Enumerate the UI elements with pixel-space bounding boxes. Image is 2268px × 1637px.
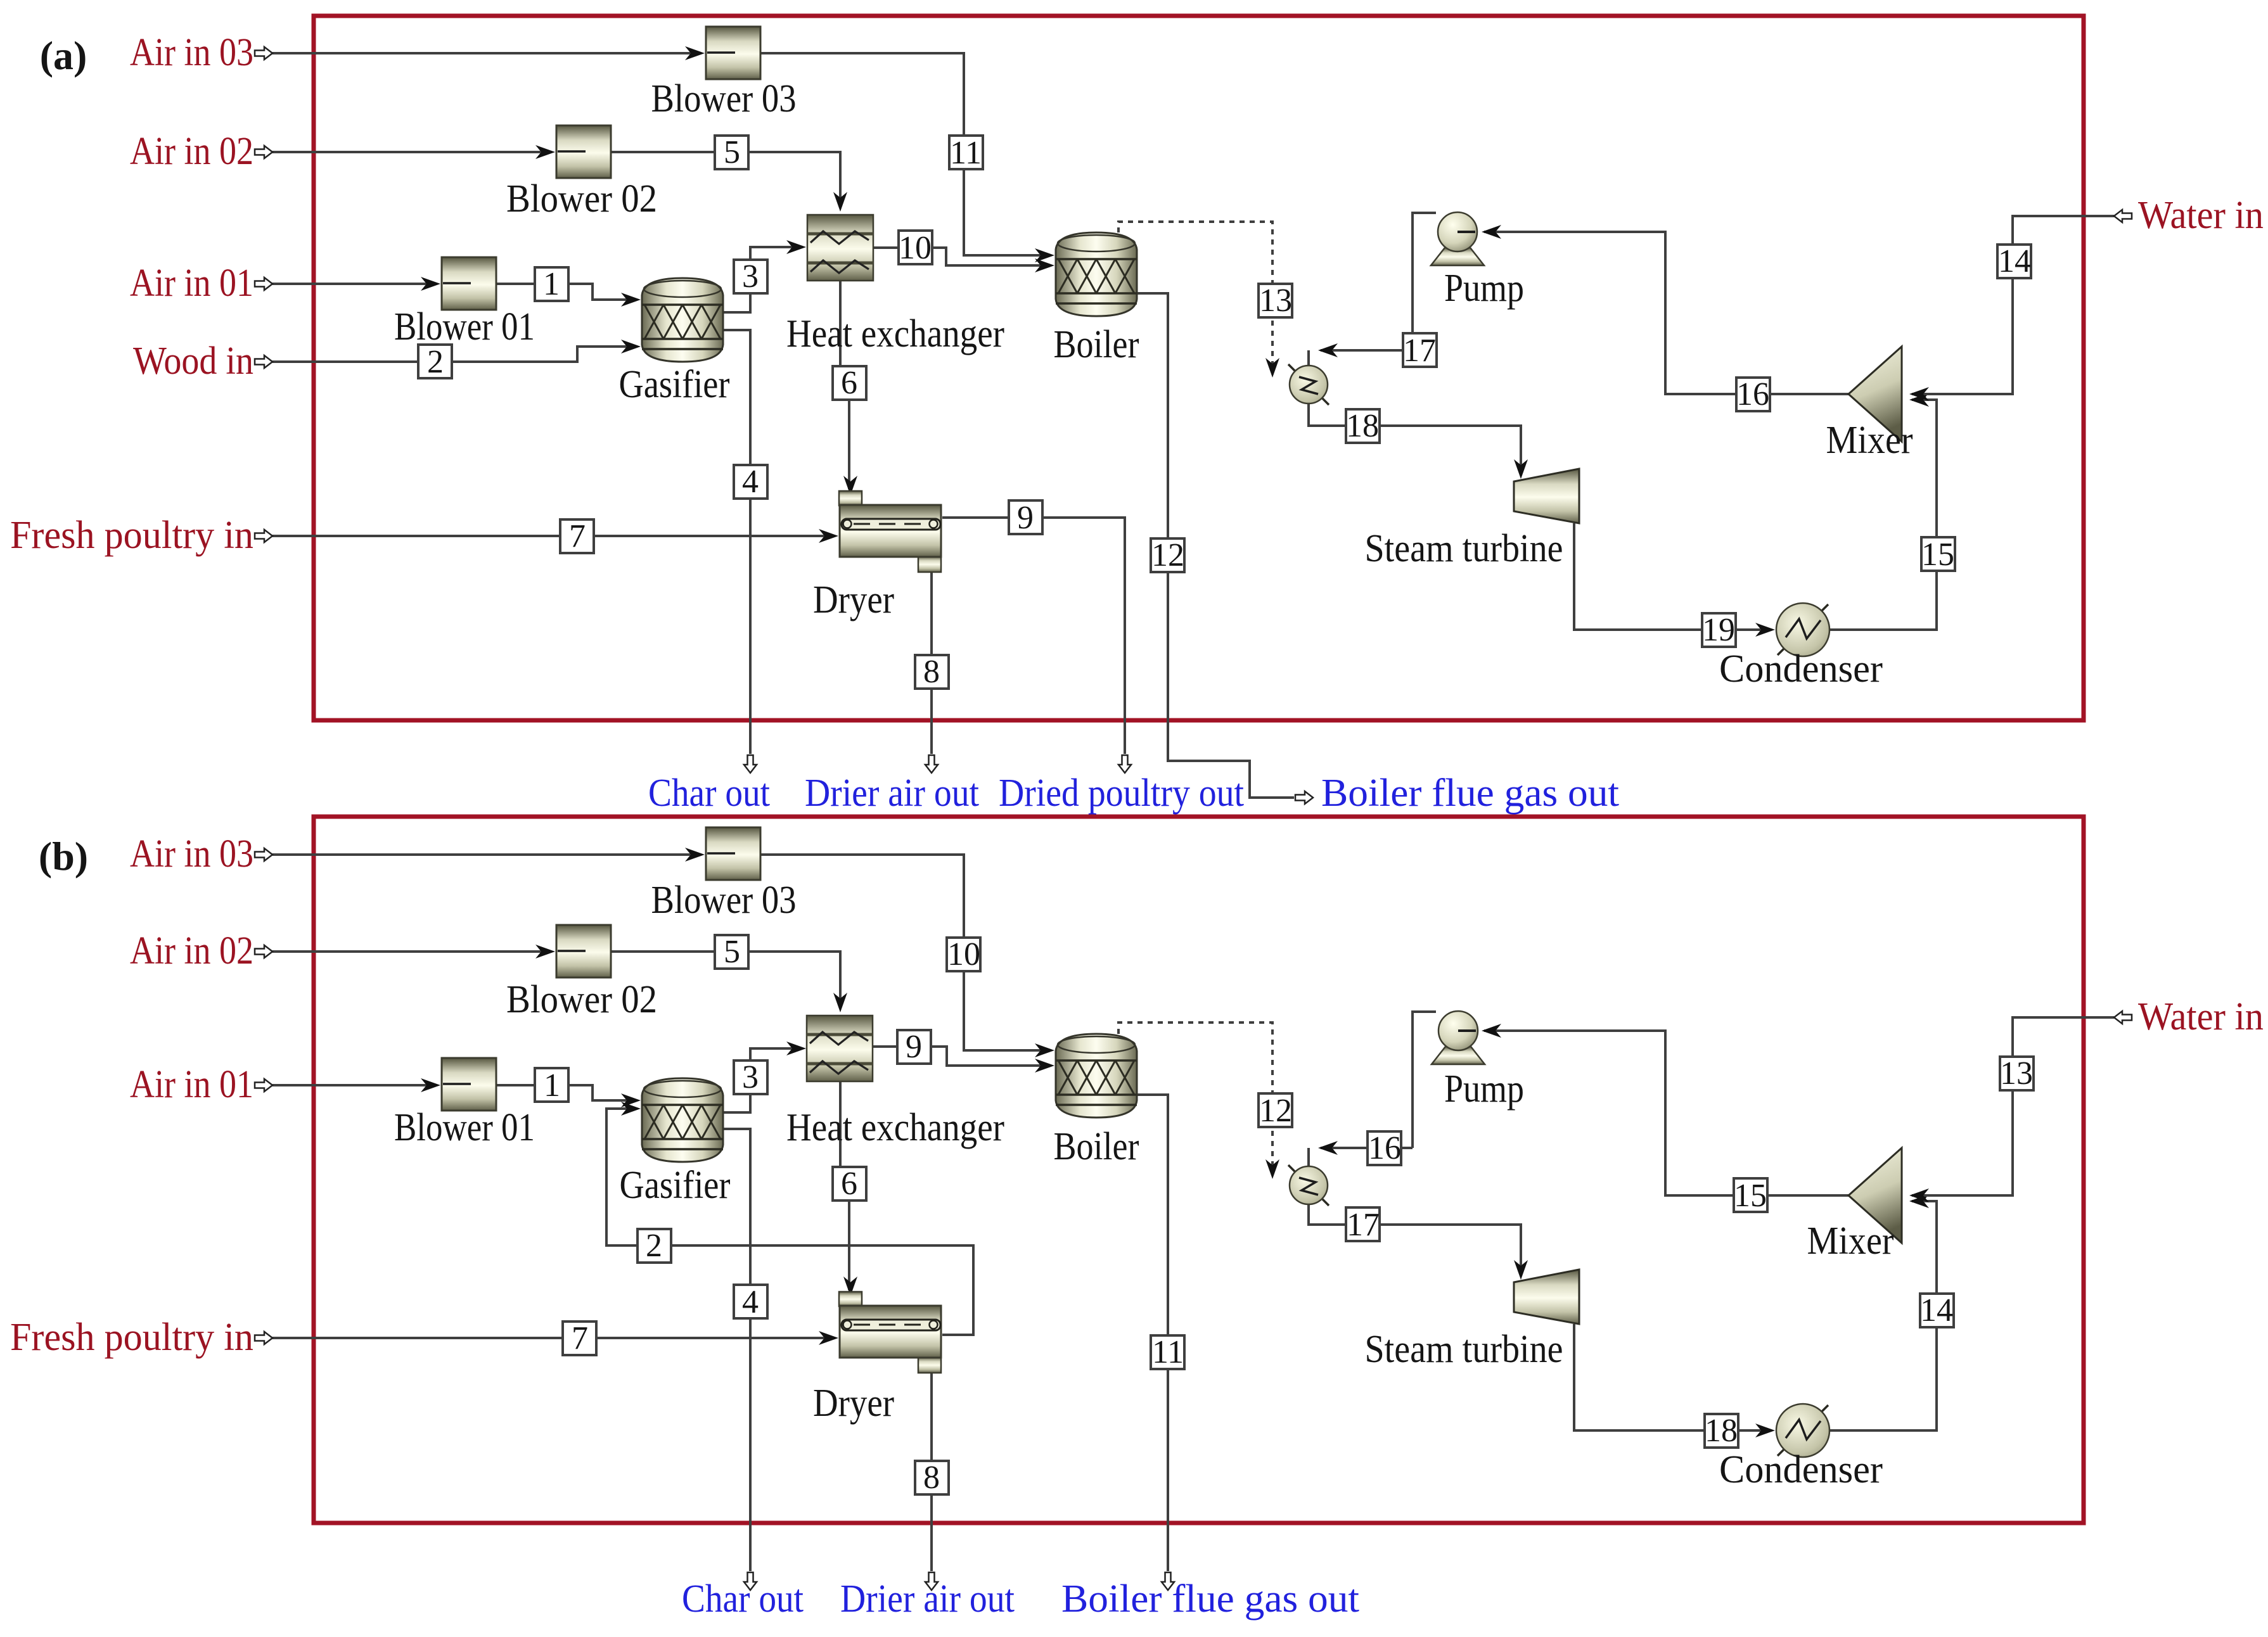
text label Boiler label (a) — [1054, 323, 1139, 366]
text label Mixer label (a) — [1826, 419, 1913, 462]
text label Air in 02 (a) — [130, 130, 253, 173]
blower Blower 01 (b) — [442, 1058, 496, 1111]
wire stream 9 HX to boiler (b) — [873, 1047, 1051, 1066]
arrowhead into pump (b) — [1482, 1024, 1501, 1038]
wire stream 18 turbine to condenser (b) — [1574, 1324, 1771, 1430]
panel (b) boundary box — [314, 817, 2084, 1523]
svg-text:12: 12 — [1151, 537, 1184, 573]
text label Gasifier label (a) — [619, 363, 730, 406]
wire stream 10 blower03 to boiler (b) — [760, 855, 1051, 1050]
arrowhead into boiler lower (b) — [1035, 1059, 1054, 1073]
stream label box 13 (a) — [1259, 283, 1292, 319]
arrowhead into turbine (a) — [1514, 459, 1528, 479]
dryer Dryer (a) — [839, 491, 941, 572]
arrowhead into blower02 (a) — [535, 145, 555, 159]
arrowhead into blower01 (b) — [421, 1078, 440, 1092]
wire stream 8 drier air out (a) — [930, 573, 933, 754]
arrowhead into blower01 (a) — [421, 277, 440, 291]
arrowhead into heater top (a) — [1318, 343, 1338, 357]
arrowhead into HX left (b) — [786, 1041, 806, 1055]
dryer Dryer (b) — [839, 1292, 941, 1373]
vessel Gasifier (b) — [642, 1078, 723, 1162]
svg-text:4: 4 — [742, 1284, 759, 1320]
stream label box 11 (a) — [949, 135, 983, 171]
stream label box 17 (a) — [1403, 333, 1437, 369]
svg-text:Dried poultry out: Dried poultry out — [999, 772, 1244, 815]
svg-text:Pump: Pump — [1444, 267, 1524, 310]
wire air in 02 feed (a) — [272, 151, 551, 153]
wire stream 12 heat dashed (b) — [1118, 1022, 1272, 1169]
blower Blower 02 (a) — [556, 125, 611, 178]
wire stream 14 condenser to mixer (b) — [1829, 1201, 1937, 1430]
arrowhead into heater top (b) — [1318, 1141, 1338, 1155]
text label Gasifier label (b) — [620, 1164, 731, 1207]
wire stream 1 blower01 to gasifier (a) — [496, 284, 637, 300]
text label Fresh poultry in (a) — [10, 514, 253, 557]
text label Water in (a) — [2138, 194, 2264, 237]
open stream arrow boiler flue gas out arrow (b) — [1162, 1572, 1174, 1590]
svg-text:13: 13 — [1259, 283, 1292, 319]
steam turbine Steam turbine (b) — [1514, 1270, 1579, 1324]
text label Drier air out (a) — [805, 772, 979, 815]
arrowhead dashed into heater (a) — [1265, 358, 1279, 378]
mixer Mixer (a) — [1848, 347, 1902, 442]
svg-text:Air in 01: Air in 01 — [130, 262, 253, 305]
wire stream 3 gasifier to HX (a) — [721, 247, 802, 312]
wire stream 7 fresh poultry to dryer (a) — [272, 535, 835, 537]
text label Dryer label (b) — [813, 1382, 894, 1425]
stream label box 7 (a) — [560, 518, 594, 554]
svg-text:Water in: Water in — [2138, 995, 2264, 1038]
wire heater top stub (b) — [1307, 1148, 1310, 1166]
text label Air in 03 (b) — [130, 832, 253, 876]
svg-text:Condenser: Condenser — [1719, 1448, 1883, 1491]
svg-text:5: 5 — [724, 134, 740, 170]
text label Condenser label (a) — [1719, 647, 1883, 691]
arrowhead into dryer (b) — [819, 1331, 838, 1345]
svg-text:(b): (b) — [39, 834, 88, 879]
stream label box 15 (a) — [1921, 537, 1955, 573]
text label Char out (b) — [682, 1577, 804, 1621]
text label Water in (b) — [2138, 995, 2264, 1038]
open stream arrow drier air out (a) — [925, 755, 938, 773]
open stream arrow air in 02 (b) — [255, 945, 272, 958]
text label Mixer label (b) — [1807, 1220, 1894, 1263]
wire stream 3 gasifier to HX (b) — [721, 1048, 802, 1112]
stream label box 3 (a) — [734, 258, 767, 295]
arrowhead into mixer upper (a) — [1909, 387, 1929, 401]
arrowhead into boiler upper (b) — [1035, 1043, 1054, 1057]
svg-text:14: 14 — [1920, 1292, 1953, 1328]
text label Boiler flue gas out (a) — [1321, 772, 1619, 815]
open stream arrow char out (a) — [744, 755, 757, 773]
stream label box 18 (b) — [1705, 1413, 1738, 1449]
text label Drier air out (b) — [840, 1577, 1015, 1621]
svg-text:18: 18 — [1346, 408, 1379, 444]
svg-text:3: 3 — [742, 1059, 759, 1095]
svg-text:Boiler flue gas out: Boiler flue gas out — [1061, 1577, 1359, 1621]
arrowhead into dryer (a) — [819, 529, 838, 543]
wire stream 4 char out line (a) — [721, 330, 750, 754]
svg-text:Steam turbine: Steam turbine — [1365, 1328, 1563, 1371]
svg-text:1: 1 — [544, 1067, 560, 1104]
svg-text:Boiler: Boiler — [1054, 1125, 1139, 1168]
wire stream 7 fresh poultry to dryer (b) — [272, 1337, 835, 1339]
wire stream 2 dryer solids to gasifier (b) — [606, 1109, 973, 1335]
arrowhead into dryer top (a) — [843, 476, 857, 495]
svg-text:Blower 01: Blower 01 — [394, 1106, 535, 1149]
stream label box 1 (a) — [535, 266, 568, 302]
arrowhead dashed into heater (b) — [1265, 1159, 1279, 1179]
svg-text:17: 17 — [1403, 333, 1436, 369]
text label Blower 02 label (b) — [506, 978, 657, 1021]
stream label box 5 (b) — [715, 934, 748, 970]
vessel Gasifier (a) — [642, 278, 723, 362]
svg-text:Air in 03: Air in 03 — [130, 832, 253, 876]
arrowhead into gasifier wood (a) — [621, 340, 641, 354]
steam turbine Steam turbine (a) — [1514, 469, 1579, 523]
wire air in 03 feed (a) — [272, 52, 701, 54]
arrowhead into pump (a) — [1482, 225, 1501, 239]
wire stream 13 water to mixer (b) — [1912, 1017, 2114, 1195]
svg-text:Char out: Char out — [648, 772, 770, 815]
stream label box 12 (a) — [1151, 537, 1184, 573]
open stream arrow fresh poultry in (a) — [255, 530, 272, 542]
text label Steam turbine label (a) — [1365, 527, 1563, 570]
stream label box 10 (b) — [947, 936, 980, 972]
open stream arrow air in 02 (a) — [255, 146, 272, 158]
svg-text:Fresh poultry in: Fresh poultry in — [10, 1316, 253, 1359]
mixer Mixer (b) — [1848, 1148, 1902, 1243]
svg-text:Dryer: Dryer — [813, 1382, 894, 1425]
stream label box 8 (b) — [915, 1460, 949, 1496]
text label Boiler label (b) — [1054, 1125, 1139, 1168]
text label Blower 01 label (b) — [394, 1106, 535, 1149]
text label Fresh poultry in (b) — [10, 1316, 253, 1359]
wire stream 19 turbine to condenser (a) — [1574, 523, 1771, 630]
wire heater top stub (a) — [1307, 350, 1310, 366]
arrowhead into HX top (b) — [833, 993, 847, 1012]
stream label box 14 (a) — [1997, 243, 2031, 279]
open stream arrow air in 03 (a) — [255, 47, 272, 60]
stream label box 9 (a) — [1009, 500, 1042, 536]
open stream arrow water in (a) — [2114, 210, 2132, 222]
arrowhead into boiler upper (a) — [1035, 248, 1054, 262]
arrowhead into HX top (a) — [833, 192, 847, 212]
arrowhead into mixer upper (b) — [1909, 1188, 1929, 1202]
wire stream 12 boiler flue line (a) — [1137, 293, 1294, 798]
heat exchanger Heat exchanger (b) — [807, 1016, 873, 1081]
arrowhead into HX left (a) — [786, 240, 806, 254]
svg-text:Pump: Pump — [1444, 1067, 1524, 1111]
svg-text:Blower 02: Blower 02 — [506, 978, 657, 1021]
arrowhead into dryer top (b) — [843, 1277, 857, 1296]
svg-text:4: 4 — [742, 464, 759, 500]
arrowhead into condenser (a) — [1755, 623, 1775, 637]
wire stream 6 HX to dryer (a) — [840, 281, 849, 489]
open stream arrow wood in (a) — [255, 355, 272, 368]
svg-text:Wood in: Wood in — [133, 340, 253, 383]
arrowhead into blower03 (b) — [685, 848, 705, 862]
stream label box 6 (a) — [833, 365, 866, 401]
svg-text:Mixer: Mixer — [1826, 419, 1913, 462]
svg-text:Char out: Char out — [682, 1577, 804, 1621]
stream label box 9 (b) — [897, 1029, 931, 1065]
condenser Condenser (a) — [1776, 603, 1829, 656]
wire stream 1 blower01 to gasifier (b) — [496, 1085, 637, 1100]
stream label box 12 (b) — [1259, 1093, 1292, 1129]
stream label box 10 (a) — [899, 230, 932, 266]
text label Blower 02 label (a) — [506, 177, 657, 220]
wire stream 11 blower03 to boiler (a) — [760, 53, 1051, 255]
stream label box 5 (a) — [715, 134, 748, 170]
open stream arrow boiler flue gas out (a) — [1295, 791, 1313, 804]
wire stream 5 blower02 to HX (b) — [611, 952, 840, 1005]
svg-text:16: 16 — [1368, 1130, 1401, 1166]
stream label box 18 (a) — [1346, 408, 1380, 444]
stream label box 7 (b) — [563, 1320, 596, 1356]
condenser Condenser (b) — [1776, 1404, 1829, 1457]
text label Wood in (a) — [133, 340, 253, 383]
svg-text:14: 14 — [1998, 243, 2031, 279]
panel (a) boundary box — [314, 16, 2084, 720]
text label Dryer label (a) — [813, 578, 894, 621]
blower Blower 01 (a) — [442, 257, 496, 310]
wire stream 16 pump to heater (b) — [1321, 1012, 1436, 1148]
svg-text:7: 7 — [572, 1320, 588, 1356]
wire stream 4 char out line (b) — [721, 1129, 750, 1571]
svg-text:17: 17 — [1347, 1207, 1380, 1243]
pump Pump (a) — [1431, 212, 1484, 265]
svg-text:8: 8 — [923, 1460, 940, 1496]
svg-text:Air in 01: Air in 01 — [130, 1063, 253, 1106]
open stream arrow air in 01 (b) — [255, 1079, 272, 1092]
wire stream 6 HX to dryer (b) — [840, 1075, 849, 1290]
wire air in 03 feed (b) — [272, 853, 701, 856]
stream label box 16 (b) — [1368, 1130, 1401, 1166]
open stream arrow dried poultry out (a) — [1118, 755, 1131, 773]
stream label box 4 (a) — [734, 464, 767, 500]
text label Blower 03 label (b) — [651, 879, 797, 922]
svg-text:6: 6 — [841, 1166, 857, 1202]
heat exchanger Heat exchanger (a) — [807, 215, 873, 281]
svg-text:19: 19 — [1702, 612, 1735, 648]
arrowhead into blower03 (a) — [685, 46, 705, 60]
stream label box 6 (b) — [833, 1166, 866, 1202]
svg-text:Dryer: Dryer — [813, 578, 894, 621]
wire stream 16 mixer to pump (a) — [1484, 232, 1848, 394]
stream label box 2 (a) — [418, 344, 452, 380]
text label panel label (b) — [39, 834, 88, 879]
wire stream 8 drier air out (b) — [930, 1373, 933, 1571]
blower Blower 02 (b) — [556, 925, 611, 978]
stream label box 13 (b) — [2000, 1055, 2034, 1092]
svg-text:Mixer: Mixer — [1807, 1220, 1894, 1263]
svg-text:Blower 02: Blower 02 — [506, 177, 657, 220]
arrowhead into turbine (b) — [1514, 1260, 1528, 1280]
text label panel label (a) — [40, 33, 87, 78]
text label Blower 03 label (a) — [651, 77, 797, 120]
open stream arrow water in (b) — [2114, 1011, 2132, 1024]
wire stream 15 mixer to pump (b) — [1484, 1031, 1848, 1195]
wire stream 17 heater to turbine (b) — [1309, 1204, 1521, 1273]
heater heater exchanger circle (b) — [1288, 1165, 1329, 1206]
vessel Boiler (a) — [1056, 232, 1137, 316]
arrowhead into condenser (b) — [1755, 1424, 1775, 1437]
wire stream 9 dried poultry out (a) — [942, 518, 1125, 754]
svg-text:Condenser: Condenser — [1719, 647, 1883, 691]
text label Boiler flue gas out (b) — [1061, 1577, 1359, 1621]
wire stream 18 heater to turbine (a) — [1309, 404, 1521, 473]
stream label box 16 (a) — [1736, 376, 1770, 412]
svg-text:Heat exchanger: Heat exchanger — [786, 1106, 1004, 1149]
wire air in 01 feed (a) — [272, 283, 437, 285]
svg-text:18: 18 — [1705, 1413, 1738, 1449]
svg-text:Air in 02: Air in 02 — [130, 130, 253, 173]
svg-text:9: 9 — [1017, 500, 1034, 536]
svg-text:Water in: Water in — [2138, 194, 2264, 237]
stream label box 15 (b) — [1734, 1178, 1767, 1214]
arrowhead into gasifier feed (b) — [621, 1102, 641, 1116]
text label Air in 02 (b) — [130, 929, 253, 972]
svg-text:Air in 02: Air in 02 — [130, 929, 253, 972]
text label Dried poultry out (a) — [999, 772, 1244, 815]
svg-text:7: 7 — [569, 518, 586, 554]
arrowhead into boiler lower (a) — [1035, 258, 1054, 272]
svg-text:Boiler: Boiler — [1054, 323, 1139, 366]
open stream arrow fresh poultry in (b) — [255, 1332, 272, 1344]
svg-text:Gasifier: Gasifier — [619, 363, 730, 406]
text label Steam turbine label (b) — [1365, 1328, 1563, 1371]
text label Air in 01 (b) — [130, 1063, 253, 1106]
open stream arrow char out (b) — [744, 1572, 757, 1590]
text label Heat exchanger label (b) — [786, 1106, 1004, 1149]
svg-text:10: 10 — [899, 230, 932, 266]
text label Air in 01 (a) — [130, 262, 253, 305]
svg-text:3: 3 — [742, 258, 759, 295]
arrowhead into gasifier air (b) — [621, 1093, 641, 1107]
svg-text:Blower 01: Blower 01 — [394, 305, 535, 348]
wire stream 13 heat dashed (a) — [1118, 222, 1272, 367]
wire stream 5 blower02 to HX (a) — [611, 152, 840, 204]
text label Condenser label (b) — [1719, 1448, 1883, 1491]
svg-text:11: 11 — [1152, 1334, 1184, 1370]
svg-text:Drier air out: Drier air out — [840, 1577, 1015, 1621]
wire stream 14 water to mixer (a) — [1912, 216, 2114, 394]
svg-text:10: 10 — [947, 936, 980, 972]
svg-text:Air in 03: Air in 03 — [130, 31, 253, 74]
svg-text:Heat exchanger: Heat exchanger — [786, 312, 1004, 355]
open stream arrow air in 01 (a) — [255, 277, 272, 290]
svg-text:6: 6 — [841, 365, 857, 401]
wire stream 2 wood to gasifier (a) — [272, 347, 637, 362]
svg-text:16: 16 — [1736, 376, 1769, 412]
pump Pump (b) — [1432, 1011, 1485, 1064]
stream label box 4 (b) — [734, 1284, 767, 1320]
stream label box 3 (b) — [734, 1059, 767, 1095]
wire air in 01 feed (b) — [272, 1084, 437, 1086]
text label Blower 01 label (a) — [394, 305, 535, 348]
arrowhead into gasifier air (a) — [621, 293, 641, 307]
wire stream 15 condenser to mixer (a) — [1829, 400, 1937, 630]
svg-text:(a): (a) — [40, 33, 87, 78]
svg-text:11: 11 — [950, 135, 982, 171]
svg-text:5: 5 — [724, 934, 740, 970]
arrowhead into mixer lower (a) — [1909, 393, 1929, 407]
stream label box 14 (b) — [1920, 1292, 1954, 1328]
blower Blower 03 (b) — [706, 827, 760, 880]
svg-text:2: 2 — [427, 344, 444, 380]
svg-text:9: 9 — [906, 1029, 922, 1065]
wire stream 11 boiler flue line (b) — [1137, 1095, 1168, 1571]
text label Pump label (a) — [1444, 267, 1524, 310]
arrowhead into mixer lower (b) — [1909, 1194, 1929, 1208]
svg-text:13: 13 — [2000, 1055, 2033, 1092]
stream label box 2 (b) — [637, 1228, 671, 1264]
wire stream 17 pump to heater (a) — [1321, 213, 1436, 350]
svg-text:15: 15 — [1734, 1178, 1767, 1214]
arrowhead into blower02 (b) — [535, 945, 555, 959]
text label Heat exchanger label (a) — [786, 312, 1004, 355]
wire stream 10 HX to boiler (a) — [873, 248, 1051, 265]
wire air in 02 feed (b) — [272, 950, 551, 953]
stream label box 11 (b) — [1151, 1334, 1184, 1370]
open stream arrow drier air out (b) — [925, 1572, 938, 1590]
vessel Boiler (b) — [1056, 1034, 1137, 1118]
svg-text:1: 1 — [543, 266, 560, 302]
stream label box 19 (a) — [1702, 612, 1736, 648]
svg-text:12: 12 — [1259, 1093, 1292, 1129]
stream label box 8 (a) — [915, 654, 949, 690]
svg-text:Drier air out: Drier air out — [805, 772, 979, 815]
svg-text:Blower 03: Blower 03 — [651, 77, 797, 120]
text label Pump label (b) — [1444, 1067, 1524, 1111]
svg-text:2: 2 — [646, 1228, 662, 1264]
stream label box 17 (b) — [1346, 1207, 1380, 1243]
text label Char out (a) — [648, 772, 770, 815]
svg-text:8: 8 — [923, 654, 940, 690]
svg-text:Steam turbine: Steam turbine — [1365, 527, 1563, 570]
open stream arrow air in 03 (b) — [255, 848, 272, 861]
svg-text:Gasifier: Gasifier — [620, 1164, 731, 1207]
blower Blower 03 (a) — [706, 27, 760, 79]
stream label box 1 (b) — [535, 1067, 568, 1104]
svg-text:15: 15 — [1921, 537, 1954, 573]
svg-text:Fresh poultry in: Fresh poultry in — [10, 514, 253, 557]
svg-text:Boiler flue gas out: Boiler flue gas out — [1321, 772, 1619, 815]
heater heater exchanger circle (a) — [1288, 364, 1329, 405]
svg-text:Blower 03: Blower 03 — [651, 879, 797, 922]
text label Air in 03 (a) — [130, 31, 253, 74]
